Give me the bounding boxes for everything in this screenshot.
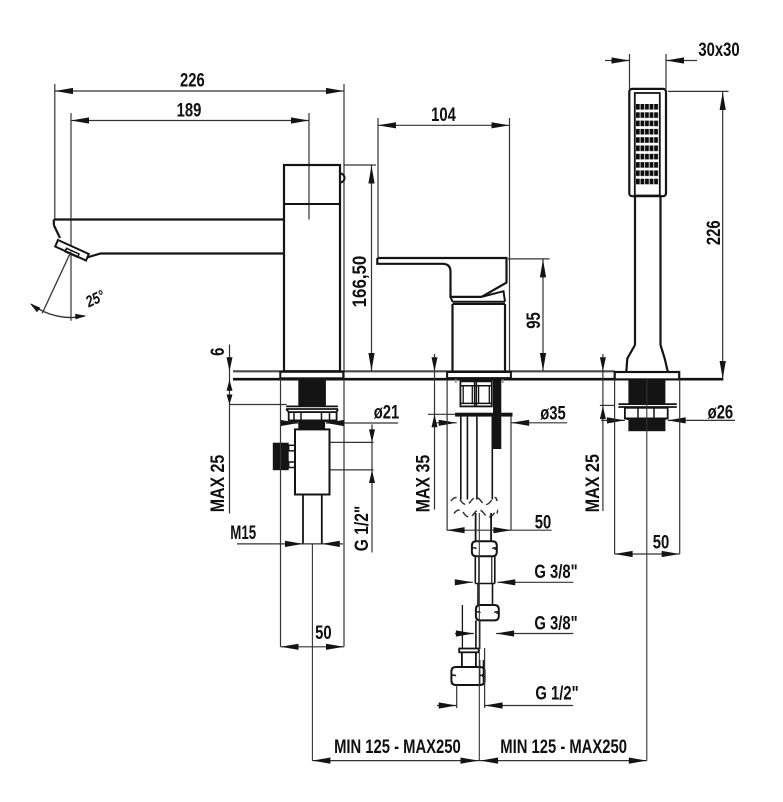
svg-text:G 3/8": G 3/8" bbox=[534, 561, 577, 582]
svg-text:MAX 35: MAX 35 bbox=[412, 455, 434, 513]
svg-text:50: 50 bbox=[653, 532, 669, 553]
svg-text:50: 50 bbox=[315, 622, 331, 643]
svg-text:50: 50 bbox=[535, 512, 551, 533]
svg-text:MIN 125 - MAX250: MIN 125 - MAX250 bbox=[500, 736, 627, 757]
svg-text:226: 226 bbox=[703, 220, 724, 245]
svg-text:ø35: ø35 bbox=[540, 403, 566, 424]
svg-text:MIN 125 - MAX250: MIN 125 - MAX250 bbox=[334, 736, 461, 757]
svg-text:MAX 25: MAX 25 bbox=[207, 454, 229, 512]
svg-text:G 1/2": G 1/2" bbox=[351, 506, 373, 551]
svg-text:ø21: ø21 bbox=[374, 402, 400, 423]
svg-text:M15: M15 bbox=[230, 523, 256, 544]
svg-text:104: 104 bbox=[431, 104, 456, 125]
svg-text:226: 226 bbox=[180, 70, 205, 91]
svg-text:95: 95 bbox=[523, 312, 544, 328]
svg-text:166,50: 166,50 bbox=[349, 256, 370, 308]
svg-text:G 3/8": G 3/8" bbox=[534, 613, 577, 634]
svg-text:G 1/2": G 1/2" bbox=[535, 683, 578, 704]
svg-text:30x30: 30x30 bbox=[698, 39, 739, 60]
svg-text:ø26: ø26 bbox=[708, 402, 734, 423]
svg-text:MAX 25: MAX 25 bbox=[582, 454, 604, 512]
svg-text:189: 189 bbox=[177, 100, 202, 121]
svg-text:6: 6 bbox=[207, 348, 228, 356]
